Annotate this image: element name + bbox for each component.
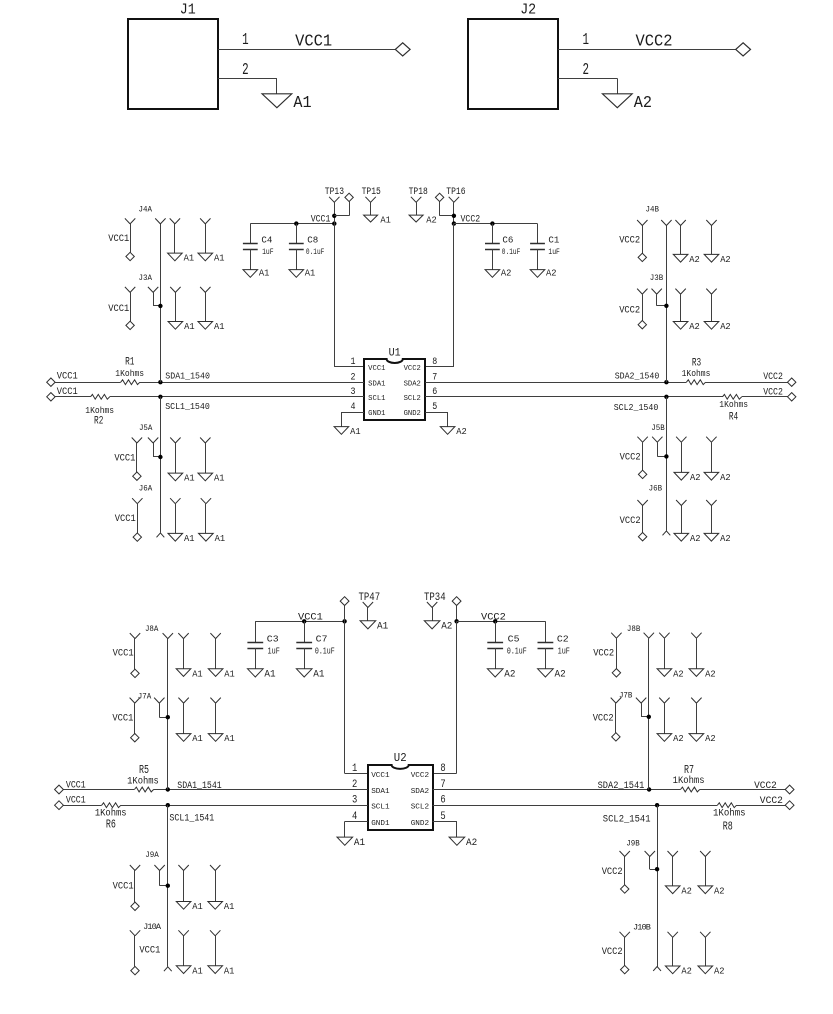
junction: [158, 380, 162, 384]
port VCC1: [131, 669, 139, 677]
capacitor C5: [487, 621, 526, 669]
net label VCC2: [760, 795, 783, 807]
svg-text:GND1: GND1: [371, 820, 390, 828]
svg-text:C4: C4: [261, 236, 272, 246]
J5B pin 3: [676, 437, 686, 473]
wire bus right upper (1541): [648, 638, 650, 789]
junction: [166, 787, 170, 791]
connector J8A: [145, 624, 159, 634]
svg-text:1: 1: [352, 763, 357, 775]
svg-text:1Kohms: 1Kohms: [682, 368, 711, 379]
svg-text:A2: A2: [705, 733, 716, 744]
svg-text:VCC2: VCC2: [620, 515, 641, 526]
ground A1: [199, 533, 226, 544]
J4B pin 1: [637, 220, 647, 253]
net label VCC1: [108, 303, 129, 314]
op-amp U1: [364, 347, 425, 420]
svg-text:VCC1: VCC1: [57, 371, 78, 382]
wire bus left upper: [160, 224, 162, 382]
svg-text:VCC2: VCC2: [763, 371, 783, 382]
ground A1: [364, 214, 392, 225]
svg-text:C3: C3: [267, 633, 279, 644]
ground A2: [673, 321, 700, 332]
resistor R5: [127, 763, 159, 795]
svg-text:GND2: GND2: [404, 410, 421, 418]
J5A pin 4: [200, 438, 210, 474]
J5B pin 2: [652, 437, 666, 457]
J3B pin 2: [652, 289, 667, 306]
svg-text:3: 3: [352, 795, 357, 807]
svg-text:J7A: J7A: [138, 692, 152, 702]
svg-text:1: 1: [242, 30, 249, 49]
J3A pin 1: [125, 287, 135, 321]
svg-text:A2: A2: [681, 966, 692, 977]
wire VCC2 to U2: [433, 621, 457, 773]
net label VCC2: [763, 387, 783, 398]
port VCC2: [785, 801, 794, 810]
ground A2: [674, 472, 701, 483]
svg-text:SCL1: SCL1: [371, 804, 390, 812]
net label SDA1_1541: [177, 780, 221, 791]
svg-text:VCC2: VCC2: [763, 387, 783, 398]
svg-text:1: 1: [583, 30, 590, 49]
J4A pin 3: [170, 218, 180, 253]
U2 pin 3 SCL1: [352, 795, 390, 812]
svg-text:J4A: J4A: [139, 204, 153, 214]
J4A pin 2: [155, 218, 165, 224]
svg-text:C1: C1: [548, 236, 559, 246]
svg-text:C5: C5: [508, 633, 520, 644]
svg-text:VCC2: VCC2: [411, 772, 430, 780]
svg-text:A2: A2: [441, 622, 452, 633]
J8B pin 4: [691, 633, 701, 669]
connector J8B: [627, 624, 641, 634]
svg-text:J2: J2: [520, 2, 536, 19]
svg-text:SDA2_1540: SDA2_1540: [615, 370, 660, 381]
net label SCL2_1541: [603, 814, 651, 825]
svg-text:A2: A2: [714, 966, 725, 977]
testpoint TP18: [409, 186, 428, 215]
svg-text:1Kohms: 1Kohms: [115, 368, 144, 379]
resistor R1: [115, 356, 144, 387]
svg-text:A2: A2: [555, 669, 566, 680]
resistor R6: [95, 800, 127, 832]
net label SDA2_1541: [598, 780, 645, 791]
svg-text:SDA1: SDA1: [368, 380, 385, 388]
ground A2: [674, 533, 701, 544]
junction: [158, 395, 162, 399]
svg-text:VCC1: VCC1: [115, 513, 136, 524]
svg-text:VCC1: VCC1: [66, 794, 86, 806]
ground A2: [538, 669, 566, 681]
J1 pin 2: [218, 60, 277, 94]
svg-text:TP16: TP16: [446, 186, 465, 197]
port VCC1: [47, 371, 78, 387]
svg-text:8: 8: [440, 763, 445, 775]
svg-text:A2: A2: [690, 472, 701, 483]
J2 pin 2: [558, 60, 618, 94]
junction: [166, 803, 170, 807]
capacitor C8: [289, 224, 325, 270]
port TP13: [334, 193, 353, 216]
svg-text:1uF: 1uF: [262, 247, 274, 257]
wire VCC2 rail: [454, 223, 538, 225]
svg-text:A1: A1: [313, 669, 324, 680]
svg-text:A1: A1: [214, 321, 225, 332]
svg-text:TP13: TP13: [325, 186, 344, 197]
connector J3B: [650, 273, 664, 283]
net label VCC1: [108, 233, 129, 244]
ground A2: [657, 668, 684, 679]
svg-text:0.1uF: 0.1uF: [502, 247, 521, 257]
ground A1: [296, 669, 324, 681]
resistor R3: [682, 358, 711, 388]
svg-text:VCC1: VCC1: [113, 647, 134, 658]
capacitor C2: [538, 621, 570, 669]
J2 pin 1: [558, 30, 736, 50]
ground A1: [289, 268, 316, 279]
J4A pin 4: [200, 218, 210, 253]
svg-text:A1: A1: [184, 253, 195, 264]
junction: [294, 221, 298, 225]
U1 pin 4 GND wire: [341, 412, 364, 427]
port VCC1: [133, 472, 141, 480]
svg-text:5: 5: [432, 402, 437, 413]
wire SDA2_1540: [425, 382, 787, 384]
wire bus left upper (1541): [167, 639, 169, 790]
junction: [452, 214, 456, 218]
svg-text:VCC1: VCC1: [108, 303, 129, 314]
svg-text:A1: A1: [192, 668, 203, 679]
port VCC2: [638, 470, 646, 478]
svg-text:A2: A2: [501, 268, 512, 279]
port VCC1: [133, 533, 141, 541]
J9A pin 4: [210, 865, 220, 902]
svg-text:A2: A2: [634, 94, 652, 113]
ground A2: [409, 214, 437, 225]
wire bus left lower: [160, 397, 162, 533]
svg-text:A1: A1: [350, 426, 361, 437]
svg-text:VCC2: VCC2: [620, 452, 641, 463]
svg-text:VCC1: VCC1: [298, 611, 323, 623]
svg-text:A2: A2: [456, 426, 467, 437]
port (VCC1): [340, 597, 349, 622]
svg-text:VCC2: VCC2: [602, 946, 623, 957]
svg-text:2: 2: [351, 372, 356, 383]
port VCC2: [788, 378, 796, 386]
J6A pin 2: [157, 533, 165, 537]
J7B pin 2: [636, 698, 649, 717]
net label VCC2: [619, 305, 640, 316]
svg-text:R4: R4: [729, 412, 739, 424]
svg-text:VCC1: VCC1: [113, 881, 134, 892]
J7A pin 1: [130, 698, 140, 734]
J4B pin 2: [661, 220, 671, 226]
ground A2: [704, 321, 731, 332]
svg-text:A1: A1: [264, 669, 275, 680]
U1 pin 2 SDA1: [351, 372, 386, 388]
wire VCC1 rail (1541): [255, 621, 344, 623]
net label VCC2: [636, 33, 673, 52]
svg-text:SDA1_1540: SDA1_1540: [165, 370, 210, 381]
port VCC1: [126, 252, 134, 260]
ground A1: [176, 668, 203, 679]
J6B pin 2: [663, 531, 671, 535]
svg-text:A1: A1: [192, 733, 203, 744]
J3B pin 3: [675, 289, 685, 322]
svg-text:J9B: J9B: [626, 839, 640, 849]
svg-text:A2: A2: [689, 254, 700, 265]
svg-text:J4B: J4B: [646, 204, 660, 214]
net label VCC2: [481, 611, 506, 623]
net label SDA1_1540: [165, 370, 210, 381]
svg-text:A2: A2: [546, 268, 557, 279]
svg-text:C2: C2: [557, 633, 569, 644]
U2 pin 8 VCC2: [411, 763, 446, 780]
resistor R2: [85, 391, 114, 427]
wire SDA1_1540: [55, 382, 364, 384]
svg-text:1Kohms: 1Kohms: [127, 776, 159, 787]
connector J3A: [139, 273, 153, 283]
ground A2: [530, 268, 557, 279]
junction: [342, 619, 346, 623]
port VCC2: [638, 321, 646, 329]
ground A1: [208, 901, 235, 912]
J8A pin 3: [178, 633, 188, 669]
J7A pin 4: [210, 698, 220, 734]
capacitor C7: [296, 621, 334, 669]
ground A2: [704, 533, 731, 544]
ground A2: [665, 966, 692, 977]
ground A1: [198, 321, 225, 332]
svg-text:1Kohms: 1Kohms: [673, 775, 705, 786]
svg-text:SCL2_1540: SCL2_1540: [614, 402, 659, 413]
svg-text:A1: A1: [215, 533, 226, 544]
svg-text:J3A: J3A: [139, 273, 153, 283]
svg-text:8: 8: [432, 357, 437, 368]
U1 pin 5 GND2: [404, 402, 438, 418]
connector J7A: [138, 692, 152, 702]
J6B pin 1: [637, 500, 647, 533]
ground A2: [698, 966, 725, 977]
svg-text:A1: A1: [184, 533, 195, 544]
svg-text:J1: J1: [180, 2, 196, 19]
net label VCC2: [754, 780, 777, 792]
J9A pin 1: [130, 865, 140, 902]
svg-text:J10A: J10A: [143, 922, 162, 932]
svg-text:1Kohms: 1Kohms: [719, 399, 748, 410]
testpoint TP13: [325, 186, 344, 223]
U2 pin 5 GND wire: [433, 821, 457, 837]
svg-text:VCC2: VCC2: [619, 305, 640, 316]
op-amp U2: [368, 751, 433, 830]
svg-text:C8: C8: [307, 236, 318, 246]
svg-text:A1: A1: [354, 838, 365, 849]
J8A pin 4: [210, 633, 220, 669]
svg-text:VCC2: VCC2: [602, 866, 623, 877]
junction: [490, 221, 494, 225]
port VCC2: [612, 733, 620, 741]
J6A pin 3: [170, 498, 180, 533]
svg-text:VCC2: VCC2: [760, 795, 783, 807]
svg-text:J8B: J8B: [627, 624, 641, 634]
ground A1: [168, 533, 195, 544]
svg-text:VCC2: VCC2: [593, 712, 614, 723]
wire SDA1_1541: [63, 789, 367, 791]
capacitor C6: [485, 224, 520, 270]
ground A1: [168, 321, 195, 332]
U1 pin 4 GND1: [351, 402, 386, 418]
svg-text:TP47: TP47: [359, 592, 381, 604]
svg-text:A1: A1: [224, 668, 235, 679]
testpoint TP15: [362, 186, 381, 215]
J3A pin 3: [170, 287, 180, 322]
U1 pin 1 VCC1: [351, 357, 386, 373]
U1 pin 7 SDA2: [404, 372, 438, 388]
net label SDA2_1540: [615, 370, 660, 381]
ground A1: [198, 473, 225, 484]
port TP16: [435, 193, 454, 216]
U2 pin 2 SDA1: [352, 779, 390, 796]
net label VCC2: [593, 712, 614, 723]
svg-text:VCC1: VCC1: [112, 712, 133, 723]
net label SCL2_1540: [614, 402, 659, 413]
net label VCC2: [620, 515, 641, 526]
ground A1: [168, 253, 195, 264]
resistor R7: [673, 763, 705, 795]
wire bus right upper: [666, 226, 668, 383]
port VCC2: [621, 965, 629, 973]
svg-text:A2: A2: [466, 838, 477, 849]
svg-text:VCC1: VCC1: [57, 386, 78, 397]
J8A pin 2: [163, 633, 173, 639]
connector J5A: [139, 423, 153, 433]
connector J1: [128, 2, 218, 110]
svg-text:U2: U2: [394, 751, 407, 765]
svg-text:A2: A2: [689, 321, 700, 332]
U1 pin 8 VCC2: [404, 357, 438, 373]
ground A1: [337, 837, 365, 849]
svg-text:A1: A1: [259, 268, 270, 279]
wire VCC2 to U1: [425, 224, 454, 367]
ground A2: [657, 733, 684, 744]
svg-text:J8A: J8A: [145, 624, 159, 634]
svg-text:1Kohms: 1Kohms: [713, 807, 746, 818]
net label VCC1: [311, 213, 331, 224]
svg-text:1uF: 1uF: [558, 646, 570, 657]
ground A2: [665, 886, 692, 897]
junction: [158, 455, 162, 459]
svg-text:VCC2: VCC2: [619, 235, 640, 246]
junction: [454, 619, 458, 623]
svg-text:TP18: TP18: [409, 186, 428, 197]
svg-text:A2: A2: [681, 886, 692, 897]
net label VCC2: [763, 371, 783, 382]
junction: [664, 454, 668, 458]
J3B pin 1: [637, 289, 647, 321]
connector J10B: [633, 922, 651, 932]
svg-text:C6: C6: [502, 236, 513, 246]
testpoint TP16: [446, 186, 465, 223]
port VCC2: [638, 533, 646, 541]
wire SCL1_1540: [55, 396, 364, 398]
J6B pin 4: [706, 500, 716, 533]
J3B pin 4: [706, 289, 716, 322]
J9A pin 3: [178, 865, 188, 902]
svg-text:SDA2_1541: SDA2_1541: [598, 780, 645, 791]
port VCC2: [621, 885, 629, 893]
ground A1: [262, 94, 312, 113]
capacitor C4: [243, 224, 274, 270]
J9B pin 1: [620, 851, 630, 885]
junction: [158, 304, 162, 308]
connector J5B: [651, 423, 665, 433]
port VCC1: [47, 386, 78, 401]
svg-text:VCC1: VCC1: [114, 452, 135, 463]
port VCC2: [788, 393, 796, 401]
svg-text:SCL2: SCL2: [411, 804, 430, 812]
net label VCC1: [115, 513, 136, 524]
capacitor C3: [247, 621, 279, 669]
ground A2: [440, 426, 467, 437]
resistor R8: [713, 800, 746, 834]
net label VCC2: [620, 452, 641, 463]
svg-text:A1: A1: [184, 321, 195, 332]
J5A pin 3: [170, 438, 180, 474]
ground A1: [176, 965, 203, 976]
svg-text:A1: A1: [214, 253, 225, 264]
J7A pin 3: [178, 698, 188, 734]
resistor R4: [719, 391, 748, 423]
J5B pin 1: [637, 437, 647, 471]
net label VCC2: [602, 866, 623, 877]
ground A2: [487, 669, 515, 681]
wire SCL2_1541: [433, 805, 786, 807]
port VCC2: [736, 43, 751, 56]
net label VCC2: [619, 235, 640, 246]
U2 pin 1 VCC1: [352, 763, 390, 780]
svg-text:J9A: J9A: [145, 850, 159, 860]
svg-text:VCC2: VCC2: [636, 33, 673, 52]
svg-text:VCC1: VCC1: [66, 779, 86, 791]
junction: [655, 803, 659, 807]
svg-text:VCC2: VCC2: [461, 213, 481, 224]
svg-text:A2: A2: [705, 668, 716, 679]
U2 pin 5 GND2: [411, 811, 446, 828]
svg-text:7: 7: [432, 372, 437, 383]
J1 pin 1: [218, 30, 396, 50]
svg-text:A1: A1: [214, 473, 225, 484]
wire bus right lower: [666, 397, 668, 531]
net label VCC1: [112, 712, 133, 723]
svg-text:VCC2: VCC2: [404, 365, 421, 373]
port VCC1: [131, 966, 139, 974]
junction: [647, 715, 651, 719]
junction: [664, 380, 668, 384]
svg-text:C7: C7: [316, 633, 328, 644]
wire VCC2 rail (1541): [457, 621, 546, 623]
connector J9A: [145, 850, 159, 860]
svg-text:TP15: TP15: [362, 186, 381, 197]
svg-text:VCC1: VCC1: [139, 945, 160, 956]
svg-text:A2: A2: [690, 533, 701, 544]
J8B pin 1: [611, 633, 621, 669]
wire VCC1 rail: [250, 223, 334, 225]
svg-text:VCC1: VCC1: [311, 213, 331, 224]
svg-text:J6A: J6A: [139, 484, 153, 494]
ground A1: [208, 733, 235, 744]
J8B pin 3: [659, 633, 669, 669]
